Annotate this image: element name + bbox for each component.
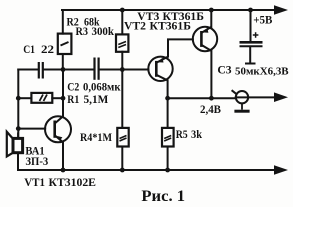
svg-text:C1: C1 [23, 42, 35, 56]
node VT2 collector R5 [165, 96, 170, 101]
node arrow output right end [274, 92, 288, 102]
node ground R4 [120, 168, 125, 173]
wire VT3 emitter lead [210, 10, 212, 28]
wire R5 top lead [167, 98, 169, 128]
wire mid horizontal C1-C2-VT2 base [18, 69, 38, 71]
svg-text:КТ361Б: КТ361Б [150, 19, 191, 33]
wire ground bottom rail [18, 169, 276, 171]
resistor R2 [58, 34, 72, 54]
wire R4 bottom lead [121, 147, 123, 171]
transistor VT3 [193, 27, 217, 51]
node C1-R2 junction [61, 67, 66, 72]
output jack symbol [232, 90, 250, 111]
wire C3 bottom lead [246, 47, 255, 63]
capacitor C2 [95, 58, 99, 80]
wire VT3 collector down [210, 51, 212, 98]
resistor R3 [116, 34, 128, 51]
svg-text:R3: R3 [76, 24, 89, 38]
wire VT1 collector vertical [62, 70, 64, 117]
wire VT2 collector down [167, 80, 169, 98]
wire C3 top lead [250, 10, 252, 41]
svg-text:22: 22 [41, 42, 54, 56]
wire collectors to output jack [168, 97, 236, 99]
wire VT2 emitter up and over to VT3 base [168, 39, 193, 56]
transistor VT1 [45, 116, 71, 142]
node VT3 collector output [209, 96, 214, 101]
transistor VT2 [148, 57, 172, 81]
svg-text:R1: R1 [67, 92, 79, 106]
wire R2 bottom lead [62, 54, 64, 70]
node left column R1 [16, 96, 21, 101]
wire R5 bottom lead [167, 147, 169, 171]
svg-text:5,1М: 5,1М [84, 92, 109, 106]
wire jack to output arrow [236, 96, 276, 98]
svg-text:КТ3102Е: КТ3102Е [49, 175, 97, 189]
node left column VT1 base [16, 126, 21, 131]
svg-text:R4*1М: R4*1М [80, 130, 112, 144]
node rail VT3 emitter [209, 8, 214, 13]
svg-text:ЗП-3: ЗП-3 [25, 154, 48, 168]
wire R3 top lead [121, 10, 123, 34]
svg-text:VT2: VT2 [124, 19, 146, 33]
svg-text:2,4В: 2,4В [200, 102, 221, 116]
svg-text:Рис. 1: Рис. 1 [141, 188, 185, 205]
speaker BA1 [7, 132, 23, 157]
node arrow bottom rail right end [274, 165, 288, 175]
node rail R3 [120, 8, 125, 13]
node ground R5 [165, 168, 170, 173]
wire left vertical column [17, 70, 19, 138]
resistor R4 [117, 128, 128, 147]
wire R1 right lead [52, 97, 63, 99]
svg-text:VT1: VT1 [24, 175, 45, 189]
wire VT1 emitter to ground rail [62, 142, 64, 170]
wire R3 bottom lead [121, 52, 123, 70]
wire R4 top lead [121, 70, 123, 128]
wire speaker bottom lead [17, 153, 19, 170]
wire R1 left lead [18, 97, 31, 99]
svg-text:50мкХ6,3В: 50мкХ6,3В [235, 66, 289, 78]
svg-text:300k: 300k [92, 24, 115, 38]
node ground VT1 emitter [61, 168, 66, 173]
svg-text:3k: 3k [191, 127, 202, 141]
resistor R1 [31, 93, 52, 103]
node R1 right VT1 collector [61, 96, 66, 101]
node rail C3 [248, 8, 253, 13]
node C2-R3-R4-VT2 base junction [120, 67, 125, 72]
svg-text:С3: С3 [217, 62, 231, 76]
capacitor C1 [39, 62, 43, 79]
wire +5V top rail [62, 9, 276, 11]
wire VT1 base [18, 128, 45, 130]
svg-text:+5В: +5В [253, 13, 272, 27]
capacitor C3 polarized [240, 32, 263, 46]
resistor R5 [162, 128, 174, 147]
svg-text:R5: R5 [176, 127, 188, 141]
node arrow +5V rail right end [274, 5, 288, 15]
wire R2 top lead [62, 10, 64, 34]
